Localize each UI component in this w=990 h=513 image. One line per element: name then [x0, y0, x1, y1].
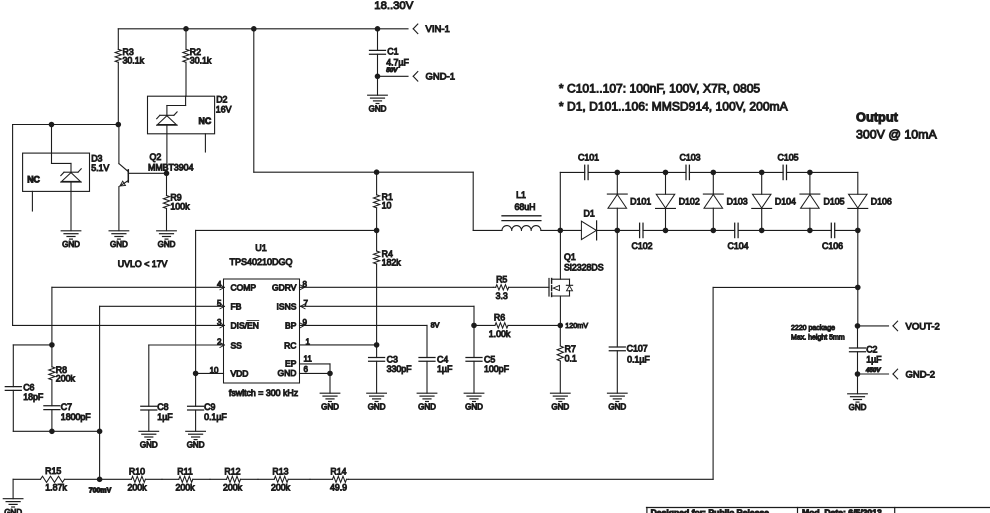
wire RC	[300, 344, 377, 346]
pin D2 NC stub	[204, 134, 206, 152]
node UVLO at D3 feed	[49, 122, 55, 128]
svg-text:120mV: 120mV	[565, 321, 588, 330]
terminal VIN-1	[413, 24, 450, 35]
ground under R7	[551, 393, 571, 411]
wire inductor feed	[473, 172, 502, 230]
wire VDD to U1	[196, 372, 224, 374]
ground under C4	[417, 393, 437, 411]
capacitor C104	[727, 223, 748, 251]
svg-text:GND: GND	[321, 402, 339, 411]
node ladder top D104	[759, 170, 765, 176]
node COMP branch	[49, 342, 55, 348]
wire ISNS	[300, 306, 475, 325]
svg-text:Output: Output	[856, 110, 899, 125]
pin arrow BP	[300, 323, 305, 328]
node Q2 base	[164, 171, 170, 177]
svg-text:C105: C105	[777, 153, 798, 163]
label 2220 package	[791, 325, 845, 341]
wire feedback vertical	[348, 287, 713, 479]
svg-text:R5: R5	[496, 274, 507, 284]
svg-text:3: 3	[217, 318, 222, 327]
note diodes	[559, 100, 789, 114]
ground under Q2 emitter	[109, 231, 129, 249]
svg-text:GND: GND	[418, 402, 436, 411]
svg-text:D101: D101	[630, 197, 651, 207]
pin arrow SS	[220, 343, 225, 348]
svg-text:0.1µF: 0.1µF	[204, 412, 227, 422]
svg-text:GND: GND	[608, 402, 626, 411]
svg-text:GND-2: GND-2	[906, 369, 936, 380]
svg-text:100k: 100k	[170, 201, 190, 211]
svg-text:68uH: 68uH	[514, 202, 535, 212]
svg-text:D106: D106	[871, 197, 892, 207]
svg-text:COMP: COMP	[231, 283, 257, 293]
label 120mV	[565, 321, 588, 330]
svg-text:Si2328DS: Si2328DS	[564, 262, 604, 272]
capacitor C2	[850, 326, 883, 374]
capacitor C4	[419, 325, 453, 393]
wire DIS/EN horizontal	[13, 324, 224, 326]
resistor R15	[13, 466, 100, 493]
resistor R5	[493, 274, 549, 301]
svg-text:* D1, D101..106: MMSD914, 100V: * D1, D101..106: MMSD914, 100V, 200mA	[559, 100, 789, 114]
svg-text:C7: C7	[61, 402, 72, 412]
svg-text:VOUT-2: VOUT-2	[906, 321, 940, 332]
svg-text:1µF: 1µF	[157, 412, 173, 422]
svg-text:GDRV: GDRV	[272, 283, 297, 293]
svg-text:Q2: Q2	[150, 152, 162, 162]
node 700mV	[97, 477, 103, 483]
wire GND-2 stub	[858, 373, 889, 375]
svg-text:2220 package: 2220 package	[791, 325, 835, 332]
svg-text:0.1µF: 0.1µF	[627, 355, 650, 365]
ground under C3	[367, 393, 387, 411]
resistor R6	[474, 312, 560, 339]
svg-text:5.1V: 5.1V	[91, 163, 109, 173]
ground under C2	[848, 374, 868, 412]
svg-text:C103: C103	[679, 153, 700, 163]
node rail at C1	[375, 26, 381, 32]
svg-text:DIS/EN: DIS/EN	[231, 321, 259, 331]
svg-text:BP: BP	[285, 321, 297, 331]
svg-text:D103: D103	[727, 197, 748, 207]
wire GDRV	[300, 286, 494, 288]
wire ladder bottom rail	[617, 229, 858, 231]
svg-text:700mV: 700mV	[89, 487, 112, 494]
svg-text:200k: 200k	[223, 483, 243, 493]
ground under R9	[157, 231, 177, 249]
svg-text:C6: C6	[23, 382, 34, 392]
svg-text:TPS40210DGQ: TPS40210DGQ	[229, 257, 292, 267]
capacitor C8	[141, 345, 173, 431]
svg-text:182k: 182k	[382, 258, 402, 268]
op-amp U1 TPS40210DGQ	[210, 243, 313, 398]
svg-text:GND: GND	[369, 104, 387, 113]
svg-text:R10: R10	[129, 466, 145, 476]
ground under C107	[608, 393, 628, 411]
svg-text:D2: D2	[216, 94, 227, 104]
node VDD pin	[193, 371, 199, 377]
svg-text:VIN-1: VIN-1	[426, 24, 450, 35]
node Q1 source / 120mV	[558, 323, 564, 329]
svg-text:450V: 450V	[865, 367, 882, 374]
terminal GND-1	[413, 72, 455, 83]
ground under C8	[139, 431, 159, 449]
wire UVLO node horizontal	[13, 124, 119, 126]
resistor R8	[49, 345, 76, 406]
node C7 bottom	[49, 429, 55, 435]
capacitor C107	[609, 230, 650, 393]
resistor R10	[100, 466, 162, 492]
wire VOUT stub	[858, 325, 889, 327]
svg-text:VDD: VDD	[231, 369, 249, 379]
wire VDD net vertical	[195, 230, 197, 373]
svg-text:4.7µF: 4.7µF	[386, 58, 409, 68]
svg-text:C1: C1	[387, 47, 398, 57]
node ladder bottom D106	[855, 228, 861, 234]
node VDD net	[374, 228, 380, 234]
node ladder top D101	[615, 170, 621, 176]
node GND-2	[855, 371, 861, 377]
svg-text:10: 10	[382, 201, 392, 211]
pin D3 NC stub	[31, 191, 33, 211]
node UVLO at R3 bottom	[116, 122, 122, 128]
svg-text:fswitch = 300 kHz: fswitch = 300 kHz	[229, 388, 298, 398]
svg-text:11: 11	[304, 355, 313, 364]
node RC	[374, 342, 380, 348]
node ladder bottom D104	[759, 228, 765, 234]
svg-text:200k: 200k	[175, 483, 195, 493]
node EP-GND join	[327, 371, 333, 377]
svg-text:Max. height 5mm: Max. height 5mm	[791, 334, 845, 341]
svg-text:C102: C102	[631, 241, 652, 251]
wire D3 anode down	[70, 182, 72, 231]
wire FB	[100, 306, 224, 479]
ground under C9	[186, 431, 206, 449]
label 18..30V	[374, 0, 413, 12]
svg-text:1.87k: 1.87k	[45, 483, 67, 493]
resistor R14	[310, 466, 348, 492]
wire UVLO into D3	[52, 125, 72, 173]
label 8V	[431, 320, 440, 329]
node ladder bottom D102	[663, 228, 669, 234]
wire VIN feed vertical	[253, 29, 255, 172]
capacitor C6	[5, 345, 44, 431]
svg-text:1800pF: 1800pF	[61, 412, 91, 422]
svg-text:NC: NC	[27, 174, 40, 184]
resistor R13	[258, 466, 310, 492]
svg-text:D3: D3	[91, 153, 102, 163]
zener diode D3 symbol	[61, 169, 82, 182]
svg-text:18pF: 18pF	[23, 392, 44, 402]
diode D1	[560, 208, 617, 239]
svg-text:0.1: 0.1	[565, 353, 577, 363]
capacitor C106	[822, 223, 843, 251]
title block	[647, 508, 990, 513]
svg-text:R11: R11	[177, 466, 193, 476]
resistor R4	[374, 230, 402, 345]
wire SS	[149, 344, 224, 346]
svg-text:C9: C9	[204, 402, 215, 412]
terminal GND-2	[893, 369, 935, 380]
svg-text:C104: C104	[727, 241, 748, 251]
resistor R11	[162, 466, 210, 492]
terminal VOUT-2	[893, 321, 940, 332]
wire U1 GND pin	[300, 372, 331, 374]
resistor R3	[115, 29, 144, 125]
node ladder top D105	[807, 170, 813, 176]
svg-text:GND: GND	[187, 441, 205, 450]
svg-text:GND: GND	[551, 402, 569, 411]
svg-text:R13: R13	[272, 466, 288, 476]
diode D104	[752, 172, 796, 230]
svg-text:GND: GND	[278, 368, 297, 378]
svg-text:ISNS: ISNS	[277, 302, 297, 312]
svg-text:GND: GND	[849, 403, 867, 412]
svg-text:MMBT3904: MMBT3904	[148, 162, 194, 172]
svg-text:49.9: 49.9	[330, 483, 347, 493]
pin arrow DIS/EN	[220, 323, 225, 328]
svg-text:100pF: 100pF	[484, 364, 510, 374]
svg-text:30.1k: 30.1k	[123, 56, 145, 66]
resistor R12	[210, 466, 258, 492]
svg-text:UVLO < 17V: UVLO < 17V	[118, 259, 168, 269]
svg-text:GND: GND	[158, 240, 176, 249]
svg-text:GND: GND	[4, 508, 22, 513]
wire COMP	[52, 287, 224, 345]
svg-text:C8: C8	[157, 402, 168, 412]
diode D3 box	[23, 153, 110, 191]
diode D2 box	[148, 94, 232, 133]
node ladder bottom D103	[711, 228, 717, 234]
svg-text:16V: 16V	[216, 105, 232, 115]
capacitor C9	[188, 373, 228, 431]
pin arrow COMP	[220, 285, 225, 290]
label 450V	[865, 367, 882, 374]
wire BP	[300, 324, 428, 326]
wire output rail	[857, 230, 859, 326]
svg-text:3.3: 3.3	[496, 291, 508, 301]
svg-text:SS: SS	[231, 340, 243, 350]
diode D101	[607, 172, 651, 230]
node D1 cathode	[615, 228, 621, 234]
svg-text:U1: U1	[255, 243, 267, 253]
svg-text:GND: GND	[110, 240, 128, 249]
pin arrow ISNS	[301, 304, 306, 309]
node FB column mid	[97, 429, 103, 435]
ground under C5	[464, 393, 484, 411]
wire feedback horizontal	[713, 286, 858, 288]
resistor R9	[163, 173, 190, 230]
transistor Q2	[119, 125, 194, 231]
svg-text:Q1: Q1	[564, 252, 576, 262]
capacitor C101	[578, 153, 599, 180]
wire L1 to drain node	[541, 229, 560, 231]
label Output	[856, 110, 899, 125]
svg-text:GND: GND	[368, 402, 386, 411]
svg-text:R12: R12	[224, 466, 240, 476]
node VOUT	[855, 323, 861, 329]
svg-text:NC: NC	[199, 116, 212, 126]
node ladder bottom D105	[807, 228, 813, 234]
svg-text:Designed for: Public Release: Designed for: Public Release	[651, 508, 770, 513]
svg-text:D102: D102	[679, 197, 700, 207]
svg-text:200k: 200k	[56, 373, 76, 383]
svg-text:8V: 8V	[431, 320, 440, 329]
svg-text:* C101..107: 100nF, 100V, X7R,: * C101..107: 100nF, 100V, X7R, 0805	[559, 82, 761, 96]
svg-text:Mod. Date: 6/5/2013: Mod. Date: 6/5/2013	[802, 508, 882, 513]
ground under D3	[61, 231, 81, 249]
label UVLO < 17V	[118, 259, 168, 269]
diode D106	[848, 172, 892, 230]
resistor R2	[183, 29, 212, 96]
svg-text:C106: C106	[822, 241, 843, 251]
diode D103	[703, 172, 747, 230]
wire ladder top rail	[560, 172, 858, 230]
wire VDD net horizontal	[196, 229, 377, 231]
node ladder top D103	[711, 170, 717, 176]
svg-text:RC: RC	[284, 340, 296, 350]
wire EP	[300, 364, 331, 374]
svg-text:GND-1: GND-1	[426, 72, 456, 83]
svg-text:GND: GND	[62, 240, 80, 249]
wire top input rail	[118, 28, 408, 30]
pin arrow FB	[220, 304, 225, 309]
svg-text:10: 10	[210, 366, 219, 375]
label 700mV	[89, 487, 112, 494]
wire VIN feed horizontal	[254, 171, 473, 173]
node rail at R2	[183, 26, 189, 32]
svg-text:C2: C2	[866, 345, 877, 355]
capacitor C102	[631, 223, 652, 251]
svg-text:R14: R14	[330, 466, 346, 476]
svg-text:200k: 200k	[127, 483, 147, 493]
svg-text:R6: R6	[494, 312, 505, 322]
svg-text:30.1k: 30.1k	[190, 56, 212, 66]
svg-text:1µF: 1µF	[437, 364, 453, 374]
wire DIS/EN vertical	[12, 125, 14, 326]
svg-text:FB: FB	[231, 302, 242, 312]
svg-text:C101: C101	[578, 153, 599, 163]
resistor R7	[557, 325, 577, 393]
svg-text:300V @ 10mA: 300V @ 10mA	[856, 127, 938, 141]
node rail feed-down	[251, 26, 257, 32]
ground bottom-left	[3, 479, 23, 513]
svg-text:D105: D105	[824, 197, 845, 207]
label 300V @ 10mA	[856, 127, 938, 141]
ground under U1	[320, 373, 340, 411]
wire GND-1 stub	[378, 75, 409, 77]
svg-text:C107: C107	[627, 344, 648, 354]
wire compensation bottom	[13, 430, 99, 432]
wire D2 anode to base node	[166, 125, 168, 173]
inductor L1	[502, 190, 541, 230]
capacitor C103	[679, 153, 700, 180]
svg-text:1µF: 1µF	[866, 354, 882, 364]
svg-text:R15: R15	[45, 466, 61, 476]
node feedback tap	[855, 285, 861, 291]
capacitor C5	[466, 325, 510, 393]
svg-text:EP: EP	[285, 359, 297, 369]
svg-text:L1: L1	[516, 190, 526, 200]
svg-text:1.00k: 1.00k	[489, 329, 511, 339]
resistor R1	[374, 172, 393, 230]
capacitor C1	[370, 29, 410, 77]
svg-text:18..30V: 18..30V	[374, 0, 413, 12]
node ladder top D102	[663, 170, 669, 176]
node R1 top	[374, 169, 380, 175]
svg-text:200k: 200k	[271, 483, 291, 493]
svg-text:C3: C3	[387, 354, 398, 364]
zener diode D2 symbol	[157, 112, 178, 125]
svg-text:GND: GND	[140, 441, 158, 450]
pin arrow GDRV	[300, 285, 305, 290]
transistor Q1 Si2328DS	[549, 230, 604, 325]
svg-text:C4: C4	[437, 354, 448, 364]
svg-text:R7: R7	[565, 344, 576, 354]
capacitor C7	[44, 402, 91, 431]
svg-text:50V: 50V	[386, 67, 398, 74]
node C1 bottom	[375, 74, 381, 80]
capacitor C3	[369, 345, 413, 393]
wire COMP to C6	[13, 344, 52, 346]
ground under C1	[368, 76, 388, 113]
svg-text:GND: GND	[465, 402, 483, 411]
note capacitors	[559, 82, 761, 96]
svg-text:D1: D1	[584, 208, 595, 218]
node ISNS/R6/C5	[471, 323, 477, 329]
diode D102	[656, 172, 700, 230]
capacitor C105	[777, 153, 798, 180]
svg-text:330pF: 330pF	[387, 364, 413, 374]
diode D105	[800, 172, 845, 230]
node drain / D1 anode	[558, 228, 564, 234]
svg-text:C5: C5	[484, 354, 495, 364]
svg-text:D104: D104	[775, 197, 796, 207]
wire R2 into D2	[167, 96, 186, 115]
